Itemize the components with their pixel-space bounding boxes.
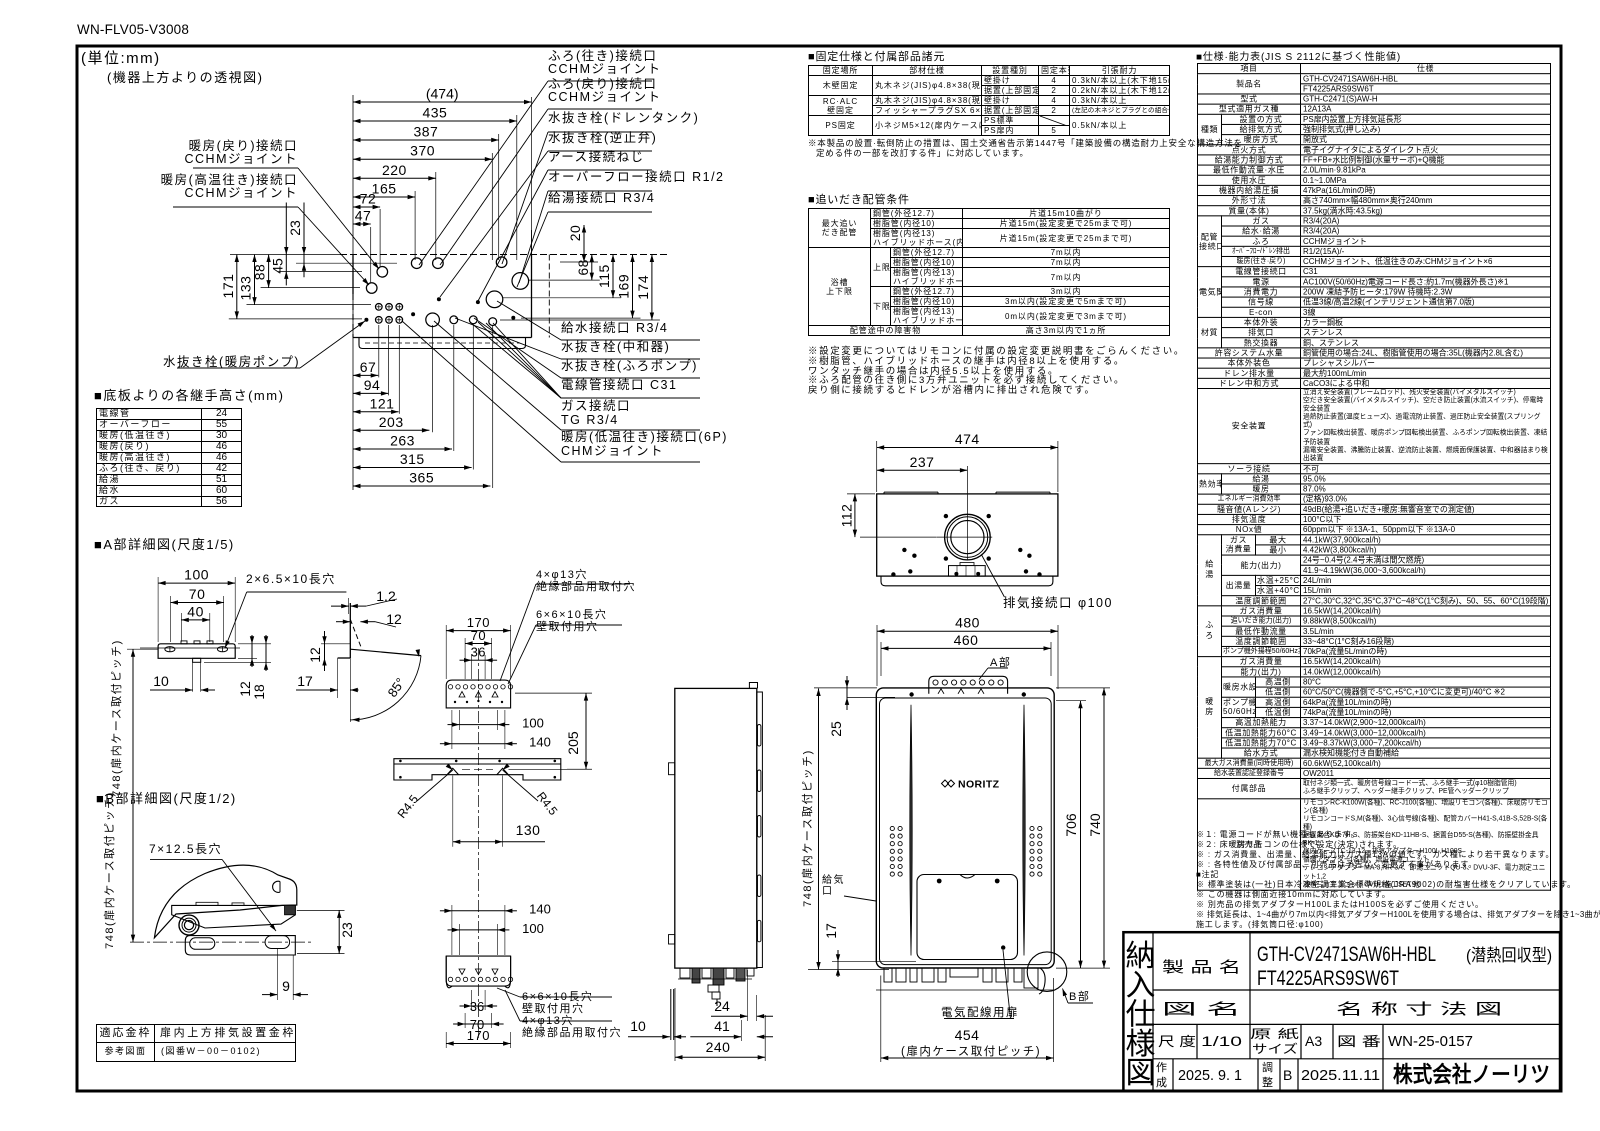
leaders right top group [548,80,652,82]
dim 24 side [711,1015,748,1017]
svg-text:調: 調 [1262,1060,1273,1074]
side wall flange bottom [670,989,672,1040]
dim 1.2 [331,605,349,607]
top view base flange [359,338,526,349]
side creases [910,705,912,956]
svg-text:203: 203 [379,414,404,430]
leader 2x6.5x10 [247,591,347,593]
B dark block [285,905,296,914]
svg-text:名 称 寸 法 図: 名 称 寸 法 図 [1336,1001,1502,1018]
svg-text:B: B [1283,1067,1292,1083]
svg-text:68: 68 [575,259,591,276]
fixing table note [808,137,1243,149]
svg-text:図: 図 [1126,1057,1156,1090]
reheating pipe condition table [808,208,1170,336]
louver grids [890,826,894,830]
svg-text:成: 成 [1156,1076,1167,1089]
port: heating return CCHM joint [377,267,388,278]
left vert dims [303,203,305,278]
svg-text:748(扉内ケース取付ピッチ): 748(扉内ケース取付ピッチ) [800,749,814,907]
svg-text:740: 740 [1087,813,1103,837]
section headings [94,385,284,404]
unit top base flange [881,576,1053,586]
B C-shaped hole [273,881,280,892]
svg-text:2025.11.11: 2025.11.11 [1301,1067,1380,1084]
svg-text:A3: A3 [1305,1033,1322,1049]
svg-text:図 番: 図 番 [1337,1034,1381,1049]
svg-text:20: 20 [567,225,583,242]
drain plugs small [450,316,458,324]
svg-text:100: 100 [522,716,544,731]
multi leader C31 [561,397,700,399]
B arm [172,905,296,928]
B detail fan shape [154,865,296,938]
bottom-plate joint height table [96,408,242,507]
dim 706 right [1080,701,1082,968]
NORITZ logo [942,779,1000,791]
dim 454 bottom [881,1057,1054,1059]
svg-text:121: 121 [370,395,395,411]
svg-text:220: 220 [382,162,407,178]
A-bu label + leader [988,667,1008,669]
port: hot water outlet R3/4 [512,273,529,290]
R4.5 leaders [417,770,453,801]
svg-text:17: 17 [297,673,313,689]
unit note [81,47,161,68]
dim 370 [353,158,492,160]
PS case dashed edge [548,255,550,338]
dim 72 [353,206,380,208]
dim 205 [585,693,587,769]
side view body [675,688,757,968]
svg-text:480: 480 [955,615,980,631]
svg-text:365: 365 [409,470,434,486]
main spec table [1197,63,1551,890]
dim 47 [353,223,371,225]
svg-text:370: 370 [410,143,435,159]
svg-text:R4.5: R4.5 [395,792,422,821]
leaders right bottom group [561,339,700,341]
svg-text:整: 整 [1262,1075,1273,1089]
dim 165 [353,196,415,198]
svg-text:133: 133 [238,276,254,301]
svg-text:240: 240 [706,1039,731,1055]
svg-text:図 名: 図 名 [1162,1001,1241,1018]
dim 12 upper [336,621,350,623]
svg-text:23: 23 [287,220,303,236]
svg-text:748(扉内ケース取付ピッチ): 748(扉内ケース取付ピッチ) [102,791,116,949]
svg-text:サイズ: サイズ [1252,1041,1298,1056]
center dashdot [477,648,479,1040]
svg-text:23: 23 [339,922,355,938]
svg-text:112: 112 [838,504,854,528]
svg-text:25: 25 [828,721,844,737]
small dots [364,318,368,322]
wall plate [394,759,561,780]
dim 237 [877,469,968,471]
svg-text:41: 41 [714,1018,730,1034]
right vert dims [583,225,585,262]
svg-text:237: 237 [910,454,935,470]
dim 10 tab [150,689,193,691]
svg-text:12: 12 [307,647,323,663]
svg-text:435: 435 [422,105,447,121]
dim 480 [877,630,1058,632]
doc number [77,22,189,37]
dim 460 [881,647,1051,649]
dims below top bracket [460,724,498,726]
svg-text:36: 36 [470,999,484,1014]
dim 240 [675,1056,765,1058]
diagonal in fixing table [1040,116,1066,126]
svg-text:115: 115 [596,264,612,288]
svg-text:315: 315 [400,451,425,467]
svg-text:R4.5: R4.5 [534,789,561,818]
dim 12 left [324,631,326,671]
svg-text:納: 納 [1126,940,1156,973]
svg-text:170: 170 [467,1028,490,1043]
dim 220 [353,177,436,179]
B centerline [130,941,312,943]
leader 7x12.5 [150,858,222,860]
dim 474 top [877,447,1058,449]
dims bracket1 [158,582,235,584]
right labels top view (lower) [561,321,668,335]
svg-text:製 品 名: 製 品 名 [1162,959,1241,976]
svg-text:171: 171 [220,274,236,299]
applicable frame table [96,1024,296,1062]
port: gas TG R3/4 [426,313,440,327]
dim (474) [353,101,532,103]
fixing spec table [808,65,1170,136]
port: bath out CCHM [411,258,422,269]
svg-text:100: 100 [184,567,209,583]
A-bracket on unit top [929,676,1008,694]
dim 41 side [690,1036,741,1038]
svg-text:10: 10 [630,1018,646,1034]
leaders below bottom bracket [520,996,612,998]
svg-text:12: 12 [386,611,402,627]
svg-text:174: 174 [635,275,651,300]
svg-text:454: 454 [955,1027,980,1043]
leader heating hi-temp [173,206,298,208]
spec table notes [1196,829,1360,840]
svg-text:17: 17 [823,923,839,939]
top view unit outline [352,255,354,295]
dim 23 B [338,910,340,953]
front view unit box [876,688,1054,968]
dim 387 [353,139,499,141]
terminal cluster [949,566,986,577]
svg-text:140: 140 [529,735,551,750]
side top bracket bump [749,683,757,689]
svg-text:18: 18 [251,684,267,700]
plate notches R4.5 [447,768,459,774]
svg-text:作: 作 [1156,1061,1167,1074]
svg-text:140: 140 [529,902,551,917]
dim 130 [453,841,503,843]
svg-text:仕: 仕 [1126,999,1156,1032]
svg-text:(474): (474) [426,86,459,102]
dim 10 side bottom [628,1036,670,1038]
svg-text:460: 460 [954,632,979,648]
title block frame [1123,932,1560,1091]
svg-text:47: 47 [355,208,372,224]
svg-text:入: 入 [1126,969,1156,1002]
wall angle vertical [349,603,351,658]
side back plate [757,692,763,968]
inner panel outline [880,698,1052,965]
side bottom fittings [680,968,690,978]
dim 112 [854,494,856,537]
svg-text:85°: 85° [385,675,409,700]
svg-text:1.2: 1.2 [376,588,396,604]
plate centerline extension [509,768,593,770]
unit top view box [877,494,1058,576]
exhaust triple circle [945,514,991,560]
leader 6x6x10 top [536,624,622,626]
port: heating high-temp CCHM joint [366,283,377,294]
leader 4xphi13 top [536,583,630,585]
svg-text:748(扉内ケース取付ピッチ): 748(扉内ケース取付ピッチ) [109,639,123,797]
port: water inlet R3/4 [486,291,503,308]
bracket1 tab [193,658,201,662]
svg-text:WN-25-0157: WN-25-0157 [1388,1033,1473,1050]
exhaust centerlines [966,466,968,560]
svg-text:706: 706 [1063,813,1079,837]
svg-text:40: 40 [187,603,204,619]
bottom fittings front [884,968,892,982]
dims below bottom bracket [472,1005,486,1007]
inner door panel [917,875,1018,960]
dim 435 [353,120,517,122]
port: drain tank plug [496,257,507,268]
svg-text:様: 様 [1126,1028,1156,1061]
hidden dashed edge [350,619,361,647]
dim 740 right [1103,688,1105,968]
dims above top bracket [446,630,510,632]
svg-text:70: 70 [189,586,206,602]
leader heating return [193,167,298,169]
dim 25 left [846,676,848,710]
leader drain plug heat pump [177,367,300,369]
svg-text:1/10: 1/10 [1201,1033,1242,1049]
6P CHM joint grid [376,304,383,311]
bracket1 left extension to 748 line [127,648,158,650]
exhaust label leader [982,555,1005,597]
B-circle callout [1027,952,1067,992]
side vent slots [758,725,761,747]
B slots [190,938,215,950]
bottom dims 67..365 [353,374,378,376]
svg-text:263: 263 [390,433,415,449]
vertical extension below corner [349,658,351,722]
svg-text:94: 94 [364,377,381,393]
dims above bottom bracket [452,910,505,912]
85 deg arc [350,656,421,720]
svg-text:24: 24 [714,998,730,1014]
svg-text:474: 474 [955,431,980,447]
side left stubs [669,763,675,775]
detail labels [246,570,336,587]
svg-text:72: 72 [360,191,377,207]
dim 9 B [262,994,277,996]
svg-text:尺 度: 尺 度 [1158,1034,1196,1049]
svg-text:70: 70 [471,628,486,643]
left labels top view [138,140,298,166]
svg-text:169: 169 [616,274,632,299]
long 748 pitch dim left details [132,649,134,942]
dim 748 left [818,689,820,970]
dims 12/18 [251,635,253,667]
port: bath return CCHM [433,258,444,269]
svg-text:FT4225ARS9SW6T: FT4225ARS9SW6T [1257,967,1399,990]
small holes on top [944,514,948,518]
svg-text:9: 9 [282,978,290,994]
B pivot double circle [179,915,199,935]
dim 17 [296,689,338,691]
svg-text:株式会社ノーリツ: 株式会社ノーリツ [1393,1062,1550,1087]
電気配線用扉 leader [944,1018,1014,1020]
A detail bracket 1 [158,644,235,659]
svg-text:387: 387 [413,124,438,140]
svg-text:GTH-CV2471SAW6H-HBL: GTH-CV2471SAW6H-HBL [1257,943,1436,966]
svg-text:(潜熱回収型): (潜熱回収型) [1466,946,1552,965]
dim 17 left [837,950,839,977]
svg-text:130: 130 [516,822,541,838]
svg-text:10: 10 [153,673,169,689]
right labels top view (upper) [548,50,662,76]
left datum extension [352,95,354,490]
svg-text:NORITZ: NORITZ [958,779,1000,791]
svg-text:205: 205 [565,731,581,755]
wall bracket top [446,680,510,708]
wall bracket bottom [446,956,510,988]
angle leg 85deg [350,649,421,655]
svg-text:67: 67 [360,359,377,375]
svg-text:100: 100 [522,921,544,936]
svg-text:2025. 9. 1: 2025. 9. 1 [1178,1067,1242,1084]
B plate [185,936,295,955]
svg-text:原 紙: 原 紙 [1250,1026,1299,1041]
pipe table notes [808,343,1185,357]
給気口 leader [844,896,876,901]
